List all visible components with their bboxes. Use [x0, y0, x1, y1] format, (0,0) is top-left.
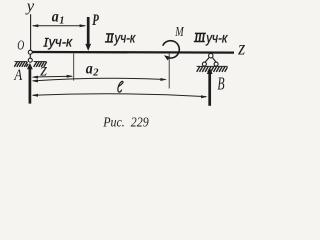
svg-text:z: z: [237, 38, 245, 60]
y axis: [30, 14, 32, 51]
svg-text:B: B: [217, 73, 224, 93]
svg-text:P: P: [92, 12, 99, 29]
label l (script ell): [118, 81, 123, 92]
dimension a2: [32, 78, 167, 82]
svg-text:M: M: [175, 24, 185, 39]
dimension a1: [32, 24, 87, 27]
left support pin circle on beam: [28, 50, 32, 54]
right support triangle legs: [205, 57, 210, 62]
left support ground hatching: [14, 62, 46, 67]
section cut tick in span I: [73, 54, 75, 81]
svg-text:уч-к: уч-к: [205, 29, 228, 45]
dimension z: [32, 75, 74, 79]
svg-text:O: O: [17, 39, 24, 54]
svg-text:a: a: [86, 60, 93, 77]
left support lower pin circle: [28, 58, 32, 62]
svg-text:Рис. 229: Рис. 229: [102, 116, 148, 131]
right support hatching: [197, 67, 228, 72]
force P arrow: [85, 17, 91, 51]
svg-text:A: A: [14, 67, 23, 84]
dimension l: [32, 94, 208, 98]
right support pin circle on beam: [209, 54, 213, 58]
beam (z axis): [30, 51, 234, 54]
right support right roller: [214, 62, 218, 66]
moment M arc: [163, 41, 180, 61]
reaction B arrow: [207, 68, 213, 106]
right support left roller: [202, 62, 206, 66]
right support ground line: [197, 65, 228, 67]
reaction A arrow: [27, 63, 33, 104]
svg-text:уч-к: уч-к: [114, 30, 137, 46]
svg-text:1: 1: [59, 15, 64, 26]
section III roman numeral: [194, 33, 206, 41]
svg-text:уч-к: уч-к: [48, 33, 74, 49]
section II roman numeral: [105, 34, 114, 42]
svg-text:z: z: [39, 60, 47, 80]
svg-text:2: 2: [92, 68, 99, 79]
svg-text:y: y: [25, 0, 35, 15]
section I roman numeral: [43, 38, 49, 46]
tick at moment section: [168, 54, 170, 89]
svg-text:a: a: [52, 9, 59, 26]
left support link: [29, 54, 31, 58]
